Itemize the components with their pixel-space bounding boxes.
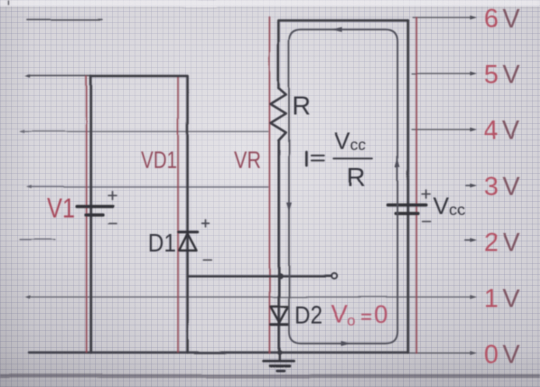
paper bottom edge shadow <box>0 374 540 378</box>
current loop arrow top (left) <box>332 27 343 32</box>
paper top edge band <box>0 0 540 8</box>
diode D2 <box>271 307 289 325</box>
label VR <box>234 147 261 174</box>
red guide line at x=86 <box>86 76 88 352</box>
tick arrow 6V <box>413 16 477 20</box>
current loop arrow left (down) <box>286 202 291 212</box>
battery Vcc plus sign <box>422 190 430 198</box>
wire left branch right side <box>186 76 189 353</box>
red guide line at x=268 <box>269 17 271 353</box>
diode D1 minus sign <box>203 259 211 261</box>
label D1 <box>148 230 176 258</box>
junction dot on VR wire <box>277 273 283 279</box>
junction dot at D2/0V rail <box>277 350 282 355</box>
diode D1 <box>179 232 198 251</box>
red guide line at x=415 <box>416 18 418 354</box>
wire right circuit right side <box>407 21 410 353</box>
label V1 <box>47 193 75 224</box>
node 1V level line <box>25 295 477 299</box>
tick arrow 3V <box>466 184 477 188</box>
node 4V level line <box>19 130 268 134</box>
battery Vcc <box>388 205 426 214</box>
label 5V <box>484 59 521 89</box>
label 1V <box>484 283 521 313</box>
diode D1 plus sign <box>202 220 209 227</box>
label 4V <box>484 115 521 145</box>
label 2V <box>484 227 521 257</box>
label Vcc <box>433 193 465 220</box>
node 6V level line (left segment) <box>27 19 102 21</box>
wire resistor top lead <box>277 21 280 89</box>
tick arrow 2V <box>465 238 477 242</box>
equation I = Vcc / R <box>307 128 373 192</box>
battery Vcc minus sign <box>423 221 431 223</box>
wire resistor bottom lead to D2 <box>278 141 281 353</box>
label D2 <box>295 302 323 330</box>
wire left branch left side <box>90 76 93 353</box>
label 6V <box>484 3 521 33</box>
tick arrow 5V <box>412 72 477 76</box>
battery V1 plus sign <box>109 192 117 200</box>
label R <box>292 91 311 121</box>
node 5V level line (left segment) <box>25 74 91 78</box>
node 3V level line <box>26 185 268 189</box>
wire left branch top <box>91 75 187 78</box>
tick arrow 4V <box>412 128 477 132</box>
wire 0V bottom rail <box>29 351 477 355</box>
label VD1 <box>141 147 177 174</box>
battery V1 minus sign <box>109 223 117 225</box>
label Vo = 0 <box>331 301 388 330</box>
label 0V <box>484 339 521 369</box>
wire right circuit top <box>279 19 408 22</box>
battery V1 <box>77 207 113 216</box>
current loop <box>289 30 398 344</box>
current loop arrow right (up) <box>395 158 400 168</box>
open terminal node <box>331 274 337 280</box>
node 2V level line (short left segment) <box>20 239 55 241</box>
red guide line at x=178 <box>177 76 179 352</box>
current loop arrow bottom (right) <box>341 341 351 346</box>
wire D1 output branch to open terminal <box>188 275 332 277</box>
ground <box>264 353 294 371</box>
resistor R <box>271 88 287 141</box>
label 3V <box>484 171 521 201</box>
